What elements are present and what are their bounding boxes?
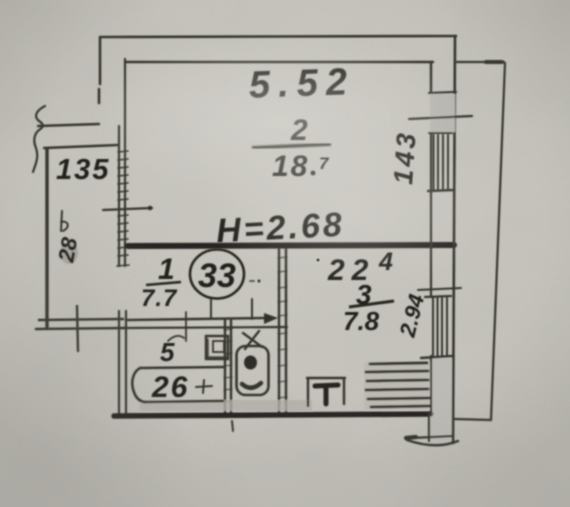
stove box bbox=[307, 378, 345, 406]
window kitchen cap bbox=[425, 296, 451, 297]
stove T bbox=[315, 385, 338, 404]
rungs room1/3 wall bbox=[278, 257, 287, 398]
wall: left outer upper bbox=[99, 37, 100, 103]
tick below bottom wall bbox=[232, 421, 233, 431]
wall: inner right vertical bbox=[430, 133, 432, 415]
smudge under 2.8 label bbox=[60, 242, 78, 264]
toilet X bbox=[243, 331, 262, 349]
wall: inner top right corner down bbox=[430, 62, 432, 91]
tick bottom right bbox=[412, 436, 453, 438]
entry squiggle bbox=[33, 106, 45, 172]
wall ladder rungs bbox=[117, 151, 129, 266]
apartment circle 33 bbox=[190, 250, 244, 299]
far right outline vertical bbox=[491, 63, 505, 420]
wall: porch line bbox=[38, 124, 99, 126]
flourish of 5 label bbox=[168, 336, 184, 341]
svg-text:33: 33 bbox=[198, 257, 236, 295]
tick right wall mid bbox=[418, 288, 461, 290]
toilet bowl bbox=[237, 346, 269, 395]
svg-text:135: 135 bbox=[56, 154, 110, 186]
svg-text:7.8: 7.8 bbox=[343, 306, 380, 336]
window room2: top cap and pier bbox=[429, 92, 456, 93]
tick: left wall dimension with dot bbox=[103, 208, 152, 210]
radiator grey bbox=[364, 362, 430, 410]
door jamb ticks above bathroom top bbox=[211, 299, 252, 319]
wall: inner top bbox=[125, 61, 433, 63]
swoosh bottom right bbox=[407, 440, 458, 445]
wall: bathroom-block left double bbox=[119, 311, 126, 416]
toilet smile bbox=[242, 383, 261, 388]
grey column below kitchen window bbox=[430, 358, 452, 440]
fraction bar room 2 bbox=[252, 144, 331, 148]
wall: bottom thick bbox=[114, 414, 431, 416]
bathtub bbox=[140, 367, 224, 368]
window kitchen hatch bbox=[433, 298, 447, 356]
curl left 2.8 label bbox=[61, 211, 68, 231]
wall: right outer bbox=[453, 36, 455, 443]
wall: hallway top bbox=[44, 145, 118, 148]
tick: hallway bottom dimension bbox=[77, 306, 78, 351]
wall: room1/room3 double bbox=[279, 249, 286, 415]
arrow mark in tub bbox=[196, 380, 212, 393]
hook bottom right bbox=[406, 437, 416, 438]
small dot kitchen bbox=[316, 258, 319, 261]
radiator bars bbox=[366, 363, 430, 407]
line from label 5 bbox=[185, 312, 187, 341]
far right outline top bbox=[457, 61, 504, 63]
rungs bath/toilet wall bbox=[224, 329, 232, 402]
wall: hall/room ladder wall verticals bbox=[119, 59, 125, 266]
small marks near circle bbox=[250, 280, 254, 282]
wall: bath/toilet double bbox=[225, 319, 231, 414]
wall: hallway bottom double bbox=[36, 319, 125, 329]
far right outline bottom bbox=[455, 419, 491, 420]
wall stub below bottom right bbox=[428, 413, 430, 441]
wall: middle thick wall bbox=[128, 245, 454, 246]
tick right wall upper bbox=[409, 116, 472, 119]
wall: top outer bbox=[101, 36, 456, 37]
wall: bathroom top with arrow bbox=[128, 318, 266, 320]
wall: hallway left bbox=[45, 149, 48, 327]
sink square bbox=[206, 336, 228, 359]
shadow under bathroom bbox=[140, 400, 312, 411]
window room2 hatch bbox=[434, 135, 449, 190]
